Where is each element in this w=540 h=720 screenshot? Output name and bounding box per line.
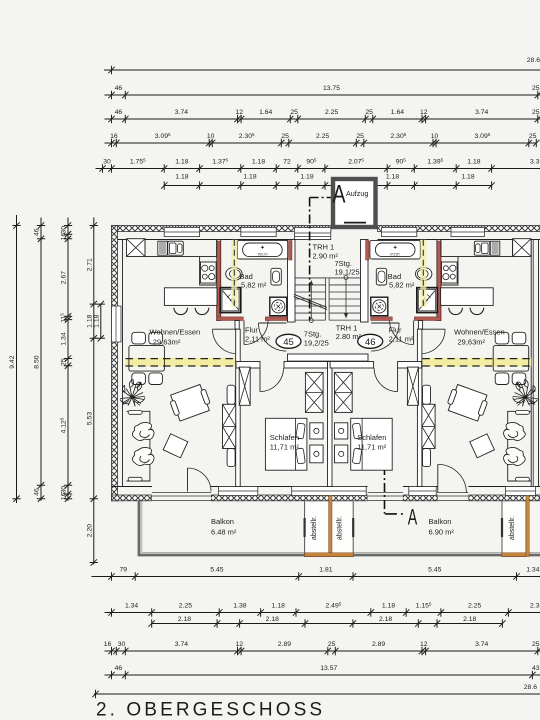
svg-text:30: 30 (61, 226, 68, 234)
svg-text:1.395: 1.395 (427, 157, 443, 165)
door: apartment entrance (259, 322, 287, 324)
svg-text:Schlafen: Schlafen (357, 433, 386, 442)
svg-text:115: 115 (59, 313, 67, 323)
building shell: outer walls (112, 226, 540, 502)
balcony outline (139, 501, 540, 555)
svg-text:2.495: 2.495 (326, 601, 342, 609)
svg-text:25: 25 (532, 85, 540, 92)
svg-text:25: 25 (281, 133, 289, 140)
svg-text:6.90 m²: 6.90 m² (429, 528, 455, 537)
svg-text:1.64: 1.64 (259, 109, 272, 116)
svg-text:2. OBERGESCHOSS: 2. OBERGESCHOSS (96, 700, 325, 720)
dimension line B1 (92, 567, 540, 581)
kitchen counter leg (200, 257, 217, 286)
svg-text:1.18: 1.18 (382, 603, 395, 610)
dimension line B4 (105, 665, 540, 679)
elevator door (344, 222, 366, 224)
dimension line T5a (window 1.18 sub-dims) (161, 174, 495, 190)
door: flur to living (213, 328, 238, 330)
svg-text:19,2/25: 19,2/25 (304, 339, 329, 348)
svg-text:4.125: 4.125 (59, 417, 67, 433)
washbasin (226, 267, 242, 280)
svg-text:25: 25 (328, 641, 336, 648)
abstellraum divider (orange) (329, 495, 332, 556)
wall: bedroom north wall (236, 362, 260, 369)
section line A-A top (310, 198, 331, 321)
stair handrail diagonal (294, 294, 327, 309)
dimension line V4 (86, 218, 98, 566)
door: bedroom (259, 368, 261, 392)
door: apt45 living to balcony (187, 468, 189, 492)
svg-text:Wohnen/Essen: Wohnen/Essen (150, 328, 201, 337)
svg-text:2,11 m²: 2,11 m² (245, 335, 270, 344)
stairwell (288, 240, 369, 362)
kitchen island (164, 288, 217, 306)
svg-text:43: 43 (532, 665, 540, 672)
svg-text:46: 46 (115, 109, 123, 116)
svg-text:3.74: 3.74 (475, 109, 488, 116)
yellow marked wall in bath (231, 240, 237, 307)
wall: kitchen/bath partition (217, 240, 221, 321)
kitchen counter top run (145, 240, 217, 257)
svg-text:1.18: 1.18 (300, 174, 313, 181)
svg-text:2.20: 2.20 (86, 524, 93, 537)
red tiled wall: bath west (217, 241, 221, 320)
svg-text:1.18: 1.18 (467, 159, 480, 166)
plant living room (120, 380, 145, 407)
balcony slab (139, 495, 540, 556)
svg-text:1.34: 1.34 (526, 567, 539, 574)
svg-text:3.3: 3.3 (530, 159, 540, 166)
svg-text:2.18: 2.18 (379, 616, 392, 623)
svg-text:1.34: 1.34 (61, 332, 68, 345)
sofa against west wall (126, 411, 149, 481)
door: bath door (243, 321, 245, 345)
svg-text:1.18: 1.18 (175, 159, 188, 166)
svg-text:2.18: 2.18 (463, 616, 476, 623)
ottoman rotated (163, 434, 188, 458)
abstellraum orange floor strips (305, 553, 354, 557)
svg-text:28.6: 28.6 (524, 684, 537, 691)
svg-text:3.095: 3.095 (475, 132, 491, 140)
svg-text:46: 46 (115, 665, 123, 672)
wall: top wall inner face (112, 239, 331, 241)
svg-text:1.18: 1.18 (272, 603, 285, 610)
svg-text:25: 25 (532, 109, 540, 116)
wall: bottom exterior wall (hatched) (112, 495, 153, 501)
svg-text:2,11 m²: 2,11 m² (389, 335, 414, 344)
wall: left exterior wall (hatched) (112, 226, 118, 501)
svg-text:46: 46 (365, 337, 376, 348)
svg-text:11,71 m²: 11,71 m² (270, 443, 300, 452)
svg-text:25: 25 (529, 133, 537, 140)
svg-text:5,82 m²: 5,82 m² (389, 281, 415, 290)
wall: corridor south wall (288, 354, 369, 361)
dimension line V4a (1.18 sub) (93, 301, 105, 342)
svg-text:13.75: 13.75 (323, 85, 340, 92)
svg-text:12: 12 (420, 109, 428, 116)
dimension line V2 (34, 218, 46, 502)
bedroom shaft/wardrobe NE (305, 372, 323, 412)
svg-text:1.18: 1.18 (252, 159, 265, 166)
svg-text:46: 46 (34, 228, 41, 236)
svg-text:19,1/25: 19,1/25 (335, 268, 360, 277)
svg-text:Aufzug: Aufzug (346, 189, 368, 198)
abstellraum box right (502, 501, 526, 557)
svg-text:2.305: 2.305 (239, 132, 255, 140)
bar stools (174, 308, 188, 315)
svg-text:30: 30 (103, 159, 111, 166)
svg-text:30: 30 (118, 641, 126, 648)
svg-text:Flur: Flur (245, 326, 258, 335)
bed (265, 418, 307, 470)
svg-text:A: A (333, 181, 346, 209)
svg-text:1.34: 1.34 (125, 603, 138, 610)
svg-text:1.81: 1.81 (319, 567, 332, 574)
svg-text:2.89: 2.89 (372, 641, 385, 648)
svg-text:5.45: 5.45 (428, 567, 441, 574)
svg-text:3.095: 3.095 (155, 132, 171, 140)
svg-text:2.25: 2.25 (468, 603, 481, 610)
wall: stairwell right wall (361, 240, 369, 323)
svg-text:28.6: 28.6 (527, 57, 540, 64)
wall: flur/living partition (235, 321, 239, 330)
svg-text:Schlafen: Schlafen (270, 433, 299, 442)
svg-text:905: 905 (396, 157, 407, 165)
wardrobe column on living side of partition (227, 385, 235, 404)
dimension line T1 (28.6 total) (104, 57, 540, 74)
apartment number oval 45 (276, 334, 301, 348)
apartment unit geometry (mirrored for unit 46) (120, 239, 328, 487)
svg-text:abstellr.: abstellr. (311, 516, 318, 540)
svg-text:Balkon: Balkon (429, 517, 452, 526)
svg-text:16: 16 (110, 133, 118, 140)
bedroom wardrobe NW (239, 367, 250, 405)
red tiled wall: bath south under washing machine (265, 317, 287, 321)
svg-text:16: 16 (61, 492, 68, 500)
yellow marked lintel band right apartment (422, 358, 531, 367)
svg-text:1.18: 1.18 (461, 174, 474, 181)
door thresholds in bottom wall (152, 492, 211, 502)
wall: party wall between apartments (328, 362, 333, 487)
svg-text:1.755: 1.755 (130, 157, 146, 165)
svg-text:6.48 m²: 6.48 m² (211, 528, 237, 537)
red tiled wall: bath south left part (217, 317, 243, 321)
wall: party wall apt46/47 right edge (531, 240, 538, 487)
dimension line B2 (105, 601, 540, 616)
svg-text:10: 10 (431, 133, 439, 140)
svg-text:30: 30 (61, 486, 68, 494)
dimension line V1 (9.42 total) (9, 215, 21, 503)
svg-text:Wohnen/Essen: Wohnen/Essen (454, 328, 505, 337)
svg-text:1.18: 1.18 (175, 174, 188, 181)
svg-text:7Stg.: 7Stg. (304, 330, 322, 339)
svg-text:5.45: 5.45 (210, 567, 223, 574)
svg-text:12: 12 (236, 641, 244, 648)
svg-text:16: 16 (104, 641, 112, 648)
dimension line B2a (2.18 sub-dims) (149, 616, 506, 628)
svg-text:2.71: 2.71 (86, 258, 93, 271)
svg-text:2.25: 2.25 (179, 603, 192, 610)
svg-text:abstellr.: abstellr. (337, 516, 344, 540)
wall: stairwell left wall (288, 240, 296, 323)
svg-text:25: 25 (61, 358, 68, 366)
svg-text:1.18: 1.18 (86, 314, 93, 327)
dishwasher (158, 241, 168, 255)
kitchen tall cabinet with X (127, 239, 146, 257)
svg-text:1.18: 1.18 (93, 314, 100, 327)
svg-text:905: 905 (306, 157, 317, 165)
dining chairs (132, 332, 146, 344)
stair treads (295, 277, 326, 279)
svg-text:abstellr.: abstellr. (509, 516, 516, 540)
svg-text:25: 25 (532, 641, 540, 648)
dimension line T4 (105, 132, 540, 147)
coffee table rotated (168, 383, 213, 422)
nightstands (310, 423, 323, 439)
svg-text:13.57: 13.57 (320, 665, 337, 672)
svg-text:16: 16 (61, 233, 68, 241)
svg-text:75/170: 75/170 (258, 253, 268, 257)
dimension line T3 (105, 109, 540, 123)
svg-text:Flur: Flur (389, 326, 402, 335)
svg-text:2.25: 2.25 (325, 109, 338, 116)
shower (220, 288, 240, 313)
wall: living/bedroom partition (236, 329, 241, 486)
svg-text:79: 79 (120, 567, 128, 574)
svg-text:3.74: 3.74 (175, 641, 188, 648)
svg-text:29,63m²: 29,63m² (458, 338, 486, 347)
svg-text:12: 12 (236, 109, 244, 116)
svg-text:5.53: 5.53 (86, 412, 93, 425)
stair stringer (325, 278, 327, 320)
wall: top exterior wall (hatched) (112, 226, 331, 232)
svg-text:1.155: 1.155 (416, 601, 432, 609)
svg-text:46: 46 (115, 85, 123, 92)
svg-text:12: 12 (420, 641, 428, 648)
svg-text:11,71 m²: 11,71 m² (357, 443, 387, 452)
wall: bottom wall inner face (112, 486, 153, 488)
yellow marked lintel band left apartment (126, 358, 236, 367)
svg-text:2.18: 2.18 (178, 616, 191, 623)
window: stair landing window (295, 228, 331, 240)
stair walk line up-flight (344, 276, 348, 280)
svg-text:2.075: 2.075 (348, 157, 364, 165)
dimension line T5 (96, 157, 540, 172)
title: 2. OBERGESCHOSS (96, 700, 325, 720)
apartment number oval 46 (358, 334, 383, 348)
svg-text:8.50: 8.50 (34, 355, 41, 368)
svg-text:1.64: 1.64 (391, 109, 404, 116)
window: left wall window (1.18) (112, 306, 122, 342)
svg-text:TRH 1: TRH 1 (313, 243, 335, 252)
svg-text:9.42: 9.42 (9, 355, 16, 368)
dimension line B5 (28.6 total) (92, 684, 540, 698)
red tiled wall: at stair wall near tub (289, 241, 292, 261)
svg-text:5,82 m²: 5,82 m² (241, 281, 267, 290)
armchair 2 (132, 447, 154, 465)
stair walk line down-flight (309, 319, 313, 323)
svg-text:2.3: 2.3 (530, 603, 540, 610)
room and core labels (150, 181, 516, 541)
apartment 46 mirrored geometry (330, 239, 538, 487)
svg-text:72: 72 (283, 159, 291, 166)
svg-text:25: 25 (356, 133, 364, 140)
sink unit (168, 241, 184, 255)
dimension line T2 (105, 85, 540, 99)
windows in top wall (164, 228, 199, 237)
svg-text:1.38: 1.38 (233, 603, 246, 610)
armchair 1 (132, 422, 154, 440)
cooktop (201, 262, 217, 283)
svg-text:25: 25 (290, 109, 298, 116)
svg-text:3.74: 3.74 (475, 641, 488, 648)
washing machine (270, 297, 287, 316)
door: apt46 living to balcony (437, 464, 439, 493)
abstellraum door marks (304, 518, 306, 537)
section line A-A bottom (385, 449, 406, 514)
dimension line V3 (59, 218, 72, 502)
svg-text:10: 10 (207, 133, 215, 140)
svg-text:2.67: 2.67 (61, 271, 68, 284)
svg-text:2.89: 2.89 (278, 641, 291, 648)
svg-text:A: A (408, 504, 418, 529)
dining table (129, 346, 165, 372)
svg-text:25: 25 (365, 109, 373, 116)
svg-text:1.18: 1.18 (243, 174, 256, 181)
svg-text:45: 45 (283, 337, 294, 348)
svg-text:46: 46 (34, 488, 41, 496)
svg-text:3.74: 3.74 (175, 109, 188, 116)
elevator shaft (Aufzug) (333, 179, 376, 227)
svg-text:Balkon: Balkon (211, 517, 234, 526)
abstellraum boxes between balconies (305, 501, 354, 557)
svg-text:2.18: 2.18 (266, 616, 279, 623)
svg-text:2.305: 2.305 (391, 132, 407, 140)
WC (271, 268, 281, 285)
windows in bottom wall (219, 487, 258, 496)
svg-text:29,63m²: 29,63m² (153, 338, 181, 347)
svg-text:1.375: 1.375 (212, 157, 228, 165)
dimension line B3 (104, 641, 540, 655)
bathtub (237, 240, 287, 259)
svg-text:2.25: 2.25 (316, 133, 329, 140)
svg-text:1.18: 1.18 (386, 174, 399, 181)
